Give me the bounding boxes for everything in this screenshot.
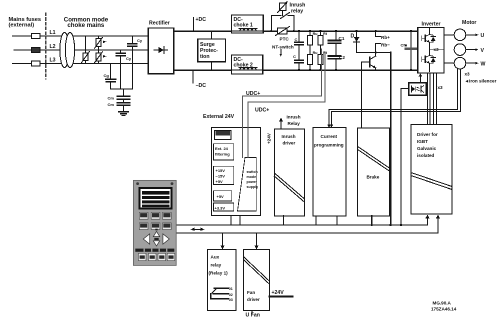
svg-text:choke 1: choke 1 (234, 23, 253, 29)
svg-text:V: V (481, 48, 485, 54)
svg-text:driver: driver (283, 141, 296, 146)
svg-text:Ext. 24: Ext. 24 (215, 146, 229, 151)
svg-text:L2: L2 (50, 44, 56, 50)
svg-text:+5V: +5V (216, 179, 224, 184)
svg-text:driver: driver (247, 297, 260, 302)
svg-text:C: C (295, 37, 298, 42)
svg-text:Galvanic: Galvanic (417, 146, 437, 151)
svg-text:power: power (247, 180, 258, 184)
svg-text:Cy: Cy (137, 38, 143, 43)
svg-text:switch: switch (247, 170, 258, 174)
svg-text:03: 03 (229, 298, 233, 302)
svg-text:Relay: Relay (288, 121, 301, 126)
svg-text:Aux: Aux (211, 255, 220, 260)
svg-text:MG.90.A: MG.90.A (433, 301, 452, 306)
svg-text:Motor: Motor (462, 20, 476, 26)
svg-text:Cf■: Cf■ (401, 43, 408, 48)
svg-text:Rt: Rt (323, 32, 328, 36)
svg-text:−15V: −15V (216, 174, 226, 179)
svg-text:filtering: filtering (215, 152, 230, 157)
svg-text:175ZA46.14: 175ZA46.14 (431, 307, 457, 312)
svg-text:x3: x3 (434, 47, 440, 52)
svg-text:choke mains: choke mains (67, 22, 105, 29)
svg-text:Cy: Cy (126, 56, 132, 61)
svg-text:relay: relay (211, 263, 222, 268)
svg-text:+5V: +5V (217, 194, 225, 199)
svg-text:Rb+: Rb+ (381, 35, 390, 40)
svg-text:Cg: Cg (104, 73, 110, 78)
svg-text:U: U (481, 33, 485, 39)
svg-text:Current: Current (321, 134, 338, 139)
svg-text:C: C (293, 54, 296, 59)
svg-text:C2: C2 (339, 55, 345, 60)
svg-text:Fan: Fan (247, 290, 255, 295)
svg-text:(Relay 1): (Relay 1) (209, 271, 229, 276)
svg-text:(external): (external) (9, 23, 35, 29)
svg-text:L3: L3 (50, 58, 56, 64)
svg-text:Inverter: Inverter (422, 22, 441, 28)
svg-text:C1: C1 (339, 36, 345, 41)
svg-text:IGBT: IGBT (417, 139, 428, 144)
svg-text:Cm: Cm (108, 102, 115, 107)
svg-text:supply: supply (247, 185, 259, 189)
svg-text:U Fan: U Fan (246, 313, 260, 319)
svg-text:Rectifier: Rectifier (149, 21, 170, 27)
svg-text:Cm: Cm (108, 96, 115, 101)
svg-text:W: W (481, 61, 486, 67)
svg-text:choke 2: choke 2 (234, 63, 253, 69)
svg-text:UDC+: UDC+ (246, 91, 260, 97)
svg-text:D: D (351, 34, 355, 40)
svg-text:PTC: PTC (280, 37, 290, 42)
svg-text:L1: L1 (50, 30, 56, 36)
svg-text:+DC: +DC (196, 17, 207, 23)
svg-text:◄Iron silencer: ◄Iron silencer (465, 78, 497, 83)
svg-text:Brake: Brake (367, 175, 380, 180)
svg-text:External 24V: External 24V (203, 114, 235, 120)
svg-text:Driver for: Driver for (417, 132, 438, 137)
svg-text:Rb−: Rb− (381, 43, 390, 48)
svg-text:Rt: Rt (323, 51, 328, 55)
svg-text:+3.3V: +3.3V (215, 206, 226, 211)
svg-text:Ru: Ru (313, 51, 318, 55)
svg-text:+24V: +24V (267, 132, 272, 144)
svg-text:NT-switch: NT-switch (272, 45, 294, 50)
svg-text:Inrush: Inrush (282, 134, 296, 139)
svg-text:tion: tion (200, 54, 210, 60)
svg-text:programming: programming (314, 143, 344, 148)
svg-text:01: 01 (229, 287, 233, 291)
svg-text:+24V: +24V (272, 290, 285, 296)
svg-text:x3: x3 (438, 85, 444, 90)
svg-text:Inrush: Inrush (287, 115, 301, 120)
svg-text:+15V: +15V (216, 168, 226, 173)
svg-text:−DC: −DC (196, 83, 207, 89)
svg-text:Ru: Ru (313, 32, 318, 36)
svg-text:02: 02 (229, 293, 233, 297)
svg-text:x3: x3 (465, 72, 471, 77)
svg-text:UDC+: UDC+ (255, 108, 269, 114)
svg-text:mode: mode (247, 175, 257, 179)
svg-text:isolated: isolated (417, 153, 435, 158)
svg-text:relay: relay (291, 9, 303, 15)
